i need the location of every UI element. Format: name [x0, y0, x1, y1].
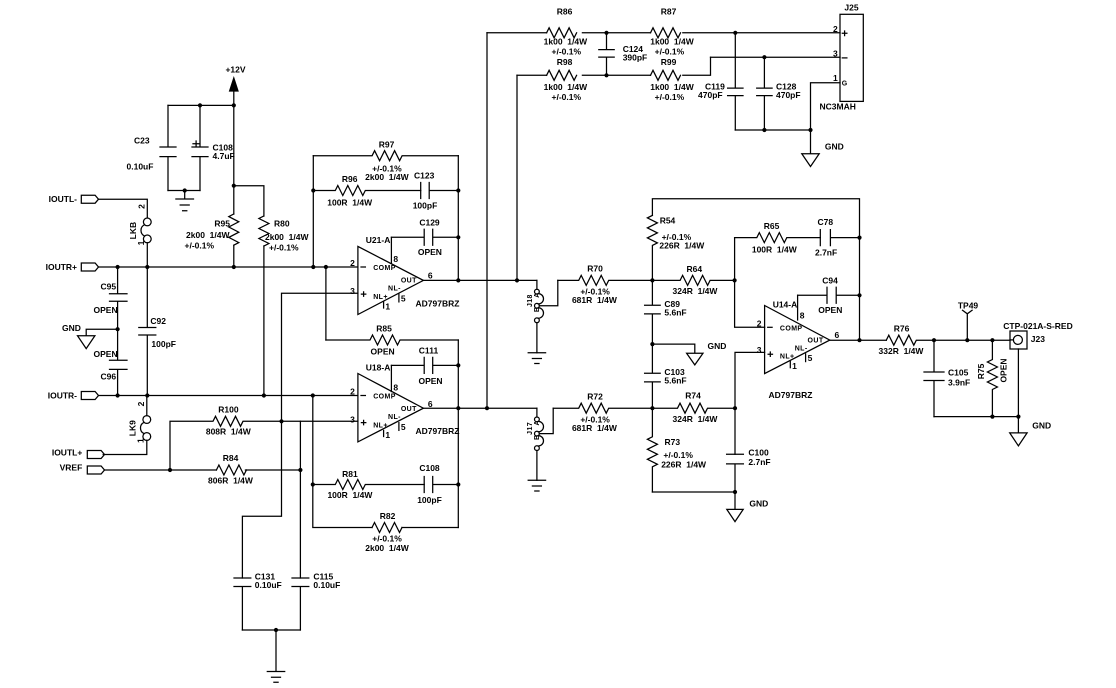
connector IOUTL- — [49, 194, 99, 204]
svg-text:B: B — [534, 434, 541, 439]
wire fb drop R81 — [313, 396, 459, 528]
ground J18 — [528, 353, 545, 364]
node R98 drop out — [515, 278, 519, 282]
node R75 bottom — [990, 415, 994, 419]
wire R86 drop — [486, 33, 488, 408]
svg-text:470pF: 470pF — [698, 90, 723, 100]
svg-text:R85: R85 — [376, 323, 392, 333]
svg-text:OPEN: OPEN — [818, 305, 842, 315]
svg-text:2k00 1/4W: 2k00 1/4W — [365, 543, 409, 553]
node +12V top rail — [232, 103, 236, 107]
svg-text:2: 2 — [350, 387, 355, 397]
svg-text:+/-0.1%: +/-0.1% — [655, 46, 685, 56]
svg-text:R74: R74 — [685, 391, 701, 401]
svg-text:R81: R81 — [342, 469, 358, 479]
wire R80 to IOUTR- row — [263, 246, 265, 396]
wire IOUTR- row — [99, 395, 358, 397]
svg-text:2.7nF: 2.7nF — [748, 457, 770, 467]
svg-text:R80: R80 — [274, 219, 290, 229]
node C128 top — [762, 55, 766, 59]
capacitor C92 — [139, 267, 176, 396]
ground under C131/C115 — [267, 630, 284, 682]
wire U14 out row — [830, 339, 887, 341]
svg-text:R54: R54 — [660, 216, 676, 226]
node R100 drop — [168, 468, 172, 472]
svg-text:806R 1/4W: 806R 1/4W — [208, 475, 254, 485]
capacitor C111 — [391, 346, 458, 386]
wire pin2 row J25 — [487, 32, 840, 34]
resistor R84 — [208, 453, 254, 486]
svg-text:2: 2 — [136, 401, 146, 406]
resistor R65 — [735, 221, 821, 254]
resistor R81 — [313, 469, 424, 500]
svg-text:OPEN: OPEN — [998, 358, 1008, 382]
node rail C123 — [456, 188, 460, 192]
svg-text:OPEN: OPEN — [94, 349, 118, 359]
testpoint TP49 — [958, 300, 979, 340]
svg-text:GND: GND — [825, 142, 844, 152]
svg-text:1: 1 — [792, 361, 797, 371]
op-amp U18 — [350, 362, 459, 442]
node R81 left — [311, 482, 315, 486]
resistor R64 — [652, 264, 734, 296]
wire top rail U14 — [652, 199, 859, 238]
svg-text:OPEN: OPEN — [371, 347, 395, 357]
svg-text:OPEN: OPEN — [418, 376, 442, 386]
wire R98 drop — [516, 75, 518, 280]
svg-text:1: 1 — [135, 438, 145, 443]
svg-text:324R 1/4W: 324R 1/4W — [673, 414, 719, 424]
ground J17 — [528, 480, 545, 491]
svg-text:470pF: 470pF — [776, 90, 801, 100]
capacitor C115 — [292, 571, 340, 630]
wire IOUTR+ row — [99, 266, 358, 268]
node C119 top — [733, 31, 737, 35]
svg-text:R99: R99 — [661, 57, 677, 67]
svg-text:2: 2 — [350, 258, 355, 268]
svg-text:6: 6 — [835, 330, 840, 340]
svg-text:A: A — [534, 292, 541, 297]
svg-text:R86: R86 — [557, 7, 573, 17]
node R54 bottom — [650, 278, 654, 282]
svg-text:G: G — [842, 80, 848, 87]
svg-text:C123: C123 — [414, 171, 435, 181]
resistor R75 — [976, 340, 1009, 416]
svg-text:U21-A: U21-A — [366, 235, 391, 245]
svg-text:100pF: 100pF — [151, 339, 176, 349]
node rail out U18 — [456, 406, 460, 410]
capacitor C95 — [94, 267, 128, 329]
wire jog to R80 — [234, 186, 264, 216]
svg-text:1: 1 — [385, 301, 390, 311]
svg-text:COMP: COMP — [780, 325, 803, 332]
resistor R87 — [650, 7, 694, 57]
svg-text:+/-0.1%: +/-0.1% — [552, 46, 582, 56]
node R86 drop out — [485, 406, 489, 410]
svg-text:2: 2 — [757, 318, 762, 328]
svg-text:NL+: NL+ — [373, 294, 388, 301]
svg-text:100pF: 100pF — [413, 201, 438, 211]
svg-text:5.6nF: 5.6nF — [664, 307, 686, 317]
svg-text:226R 1/4W: 226R 1/4W — [659, 241, 705, 251]
svg-text:1: 1 — [385, 430, 390, 440]
resistor R76 — [879, 324, 1010, 357]
connector IOUTL+ — [52, 447, 105, 458]
svg-text:2: 2 — [833, 24, 838, 34]
resistor R70 — [558, 264, 653, 305]
link J17 — [527, 408, 544, 450]
svg-text:R73: R73 — [665, 437, 681, 447]
svg-text:2k00 1/4W: 2k00 1/4W — [265, 232, 309, 242]
svg-text:R65: R65 — [764, 221, 780, 231]
resistor R80 — [259, 216, 310, 253]
svg-text:R87: R87 — [661, 7, 677, 17]
capacitor C96 — [94, 329, 128, 395]
connector VREF — [60, 462, 105, 474]
svg-text:C108: C108 — [419, 463, 440, 473]
svg-text:0.10uF: 0.10uF — [313, 580, 340, 590]
node rail out U14 — [857, 338, 861, 342]
wire pin2 drop U14 — [735, 238, 765, 328]
svg-text:8: 8 — [393, 382, 398, 392]
node TP49 tap — [965, 338, 969, 342]
svg-text:332R 1/4W: 332R 1/4W — [879, 346, 925, 356]
resistor R95 — [185, 214, 239, 251]
wire R85 drop — [325, 267, 327, 340]
svg-text:2k00 1/4W: 2k00 1/4W — [186, 230, 230, 240]
svg-text:IOUTL-: IOUTL- — [49, 194, 77, 204]
svg-text:0.10uF: 0.10uF — [255, 580, 282, 590]
svg-text:100R 1/4W: 100R 1/4W — [752, 244, 798, 254]
svg-text:IOUTR-: IOUTR- — [48, 390, 77, 400]
svg-text:1k00 1/4W: 1k00 1/4W — [544, 82, 588, 92]
svg-text:NL+: NL+ — [373, 422, 388, 429]
svg-text:808R 1/4W: 808R 1/4W — [206, 427, 252, 437]
svg-text:J23: J23 — [1031, 334, 1045, 344]
svg-text:3: 3 — [350, 286, 355, 296]
svg-text:C96: C96 — [101, 372, 117, 382]
node C89 gnd tap — [650, 342, 654, 346]
node rail C111 — [456, 363, 460, 367]
svg-text:5: 5 — [808, 353, 813, 363]
capacitor C94 — [798, 275, 860, 315]
svg-text:+/-0.1%: +/-0.1% — [552, 92, 582, 102]
wire pin1 row J25 — [811, 83, 841, 130]
svg-text:LK9: LK9 — [127, 420, 137, 436]
resistor R82 — [365, 511, 409, 553]
svg-text:2k00 1/4W: 2k00 1/4W — [365, 172, 409, 182]
ground under C23/C108 — [176, 191, 194, 211]
wire fb rail U21 — [457, 156, 459, 281]
svg-text:U18-A: U18-A — [366, 362, 391, 372]
svg-text:CTP-021A-S-RED: CTP-021A-S-RED — [1003, 321, 1072, 331]
ground GND mid — [652, 341, 726, 365]
wire cap top rail — [168, 104, 234, 106]
svg-text:2: 2 — [137, 204, 147, 209]
connector J23 — [1003, 321, 1072, 349]
resistor R98 — [544, 57, 588, 102]
capacitor C108 100pF — [417, 463, 458, 505]
svg-text:681R 1/4W: 681R 1/4W — [572, 295, 618, 305]
svg-text:R82: R82 — [380, 511, 396, 521]
power +12V — [225, 65, 245, 92]
svg-text:1k00 1/4W: 1k00 1/4W — [544, 36, 588, 46]
svg-text:+/-0.1%: +/-0.1% — [663, 450, 693, 460]
svg-text:J25: J25 — [844, 3, 858, 13]
svg-text:NL-: NL- — [388, 414, 401, 421]
capacitor C108 — [192, 105, 235, 190]
wire J17 mid to R72 — [539, 408, 553, 433]
svg-text:NC3MAH: NC3MAH — [820, 101, 856, 111]
svg-text:2.7nF: 2.7nF — [815, 248, 837, 258]
node cap gnd — [183, 188, 187, 192]
svg-text:C95: C95 — [101, 281, 117, 291]
svg-text:8: 8 — [800, 310, 805, 320]
node C95 tap — [116, 265, 120, 269]
svg-text:IOUTL+: IOUTL+ — [52, 447, 82, 457]
connector J25 — [820, 3, 864, 112]
capacitor C23 — [127, 105, 177, 190]
node C92 tap — [145, 265, 149, 269]
ground output — [1010, 417, 1051, 446]
connector IOUTR+ — [46, 262, 99, 272]
svg-text:GND: GND — [708, 341, 727, 351]
wire caps gnd rail — [735, 129, 810, 131]
wire U21 out row — [423, 279, 537, 281]
node fb drop U18 — [311, 393, 315, 397]
svg-text:C94: C94 — [822, 275, 838, 285]
node C92 bottom — [145, 393, 149, 397]
svg-text:8: 8 — [393, 254, 398, 264]
wire U18 out row — [423, 407, 537, 409]
wire pin3 row J25 — [711, 56, 841, 58]
svg-text:OUT: OUT — [401, 406, 417, 413]
node R64 right — [733, 278, 737, 282]
wire fb drop R97/R96 to pin2 — [312, 156, 314, 267]
capacitor C128 — [757, 57, 801, 130]
svg-text:C111: C111 — [419, 346, 439, 356]
svg-text:R96: R96 — [342, 174, 358, 184]
svg-text:3: 3 — [757, 345, 762, 355]
node C105 top — [932, 338, 936, 342]
svg-text:B: B — [534, 307, 541, 312]
svg-text:390pF: 390pF — [623, 53, 648, 63]
node R95 bottom — [232, 265, 236, 269]
svg-text:AD797BRZ: AD797BRZ — [416, 298, 460, 308]
svg-text:R64: R64 — [687, 264, 703, 274]
svg-text:R98: R98 — [557, 57, 573, 67]
svg-text:TP49: TP49 — [958, 300, 979, 310]
svg-text:C92: C92 — [150, 316, 166, 326]
wire cap bottom rail — [242, 629, 300, 631]
svg-text:R97: R97 — [379, 139, 395, 149]
ground GND left — [62, 323, 118, 349]
node J23 gnd — [1016, 415, 1020, 419]
svg-text:NL-: NL- — [795, 345, 808, 352]
svg-text:AD797BRZ: AD797BRZ — [416, 426, 460, 436]
svg-text:100R 1/4W: 100R 1/4W — [327, 198, 373, 208]
wire LKB to IOUTR+ row — [146, 243, 148, 267]
svg-text:R100: R100 — [218, 405, 239, 415]
wire IOUTL- to LKB — [99, 199, 148, 218]
wire fb rail U18 — [457, 340, 459, 528]
capacitor C89 — [645, 280, 687, 344]
svg-text:NL+: NL+ — [780, 354, 795, 361]
resistor R85 — [326, 323, 458, 356]
svg-text:1k00 1/4W: 1k00 1/4W — [650, 36, 694, 46]
node R80 bottom — [262, 393, 266, 397]
svg-text:C105: C105 — [948, 368, 969, 378]
resistor R54 — [647, 215, 705, 280]
node R75 top — [990, 338, 994, 342]
wire output gnd rail — [934, 416, 1018, 418]
svg-text:5: 5 — [401, 422, 406, 432]
node caps gnd — [274, 628, 278, 632]
resistor R97 — [313, 139, 458, 182]
wire R98 row — [517, 57, 711, 75]
svg-text:3: 3 — [833, 48, 838, 58]
svg-text:R72: R72 — [587, 391, 603, 401]
capacitor C129 — [391, 217, 458, 257]
wire pin3 drop U14 — [735, 352, 765, 454]
svg-text:A: A — [534, 420, 541, 425]
capacitor C131 — [234, 571, 282, 630]
svg-text:+/-0.1%: +/-0.1% — [269, 243, 299, 253]
svg-text:VREF: VREF — [60, 462, 83, 472]
svg-text:COMP: COMP — [373, 265, 396, 272]
svg-text:6: 6 — [428, 399, 433, 409]
wire fb rail U14 — [859, 238, 861, 341]
svg-text:OPEN: OPEN — [94, 305, 118, 315]
resistor R99 — [650, 57, 694, 102]
capacitor C123 — [413, 171, 459, 211]
svg-text:0.10uF: 0.10uF — [127, 162, 154, 172]
wire pin3 U21 — [242, 293, 358, 578]
capacitor C100 — [727, 448, 771, 492]
svg-text:681R 1/4W: 681R 1/4W — [572, 423, 618, 433]
svg-text:+/-0.1%: +/-0.1% — [185, 241, 215, 251]
resistor R86 — [544, 7, 588, 57]
svg-text:C78: C78 — [818, 217, 834, 227]
svg-text:1: 1 — [833, 73, 838, 83]
svg-text:C23: C23 — [134, 136, 150, 146]
node R96 left — [311, 188, 315, 192]
node rail C78 — [857, 236, 861, 240]
svg-text:C129: C129 — [419, 217, 440, 227]
node rail out U21 — [456, 278, 460, 282]
svg-text:3.9nF: 3.9nF — [948, 378, 970, 388]
svg-text:COMP: COMP — [373, 394, 396, 401]
wire J18 mid to R70 — [539, 280, 558, 305]
svg-text:226R 1/4W: 226R 1/4W — [661, 460, 707, 470]
node rail C108 — [456, 482, 460, 486]
wire +12V rail lower — [233, 245, 235, 267]
svg-text:GND: GND — [62, 323, 81, 333]
svg-text:R76: R76 — [894, 324, 910, 334]
node pin3 R84 — [298, 468, 302, 472]
capacitor C119 — [698, 33, 743, 130]
resistor R73 — [647, 408, 707, 492]
svg-text:LKB: LKB — [128, 222, 138, 239]
node C124 bottom — [604, 73, 608, 77]
link J18 — [527, 280, 544, 322]
resistor R74 — [652, 391, 735, 425]
op-amp U21 — [350, 235, 459, 314]
node R74 right — [733, 406, 737, 410]
svg-text:R75: R75 — [976, 363, 986, 379]
svg-text:4.7uF: 4.7uF — [213, 151, 235, 161]
node +12V jog — [232, 184, 236, 188]
node pin1 gnd — [808, 128, 812, 132]
node C128 bottom — [762, 128, 766, 132]
wire VREF row — [105, 469, 301, 471]
ground J25 — [802, 130, 844, 167]
svg-text:324R 1/4W: 324R 1/4W — [673, 286, 719, 296]
node R100 right — [279, 419, 283, 423]
svg-text:3: 3 — [350, 414, 355, 424]
capacitor C103 — [645, 344, 687, 408]
link LKB — [128, 204, 151, 246]
svg-text:U14-A: U14-A — [773, 300, 798, 310]
svg-text:GND: GND — [749, 498, 768, 508]
svg-text:1: 1 — [136, 240, 146, 245]
wire LK9 bottom to IOUTL+ — [103, 440, 147, 454]
wire J23 gnd stem — [1017, 349, 1019, 417]
svg-text:OPEN: OPEN — [418, 247, 442, 257]
svg-text:R95: R95 — [214, 219, 230, 229]
svg-text:5.6nF: 5.6nF — [664, 375, 686, 385]
wire J18 gnd stem — [536, 323, 538, 353]
svg-text:100R 1/4W: 100R 1/4W — [327, 490, 373, 500]
node cap rail C108 — [198, 103, 202, 107]
node gnd rail — [733, 490, 737, 494]
svg-text:GND: GND — [1032, 420, 1051, 430]
svg-text:OUT: OUT — [401, 278, 417, 285]
resistor R96 — [313, 174, 420, 208]
link LK9 — [127, 401, 150, 443]
svg-text:1k00 1/4W: 1k00 1/4W — [650, 82, 694, 92]
node C103 bottom — [650, 406, 654, 410]
wire cap bottom rail — [168, 190, 200, 192]
resistor R72 — [553, 391, 652, 432]
ground under C100 — [727, 492, 768, 522]
node rail C129 — [456, 235, 460, 239]
node C96 bottom — [116, 393, 120, 397]
capacitor C124 — [599, 33, 647, 76]
svg-text:R84: R84 — [223, 453, 239, 463]
op-amp U14 — [757, 295, 840, 400]
capacitor C105 — [924, 340, 970, 416]
wire R73 C100 gnd rail — [652, 491, 735, 493]
svg-text:+/-0.1%: +/-0.1% — [655, 92, 685, 102]
svg-text:IOUTR+: IOUTR+ — [46, 262, 77, 272]
svg-text:5: 5 — [401, 294, 406, 304]
svg-text:6: 6 — [428, 270, 433, 280]
wire LK9 top — [146, 396, 148, 416]
wire pin3 U18 — [300, 421, 358, 578]
svg-text:R70: R70 — [587, 264, 603, 274]
node C124 top — [604, 31, 608, 35]
node fb drop pin2 U21 — [311, 265, 315, 269]
node rail C94 — [857, 293, 861, 297]
resistor R100 — [170, 405, 300, 470]
svg-text:AD797BRZ: AD797BRZ — [769, 390, 813, 400]
svg-text:100pF: 100pF — [417, 495, 442, 505]
connector IOUTR- — [48, 390, 99, 400]
node C95/C96 mid — [116, 327, 120, 331]
svg-text:OUT: OUT — [808, 337, 824, 344]
wire J17 gnd stem — [536, 451, 538, 481]
